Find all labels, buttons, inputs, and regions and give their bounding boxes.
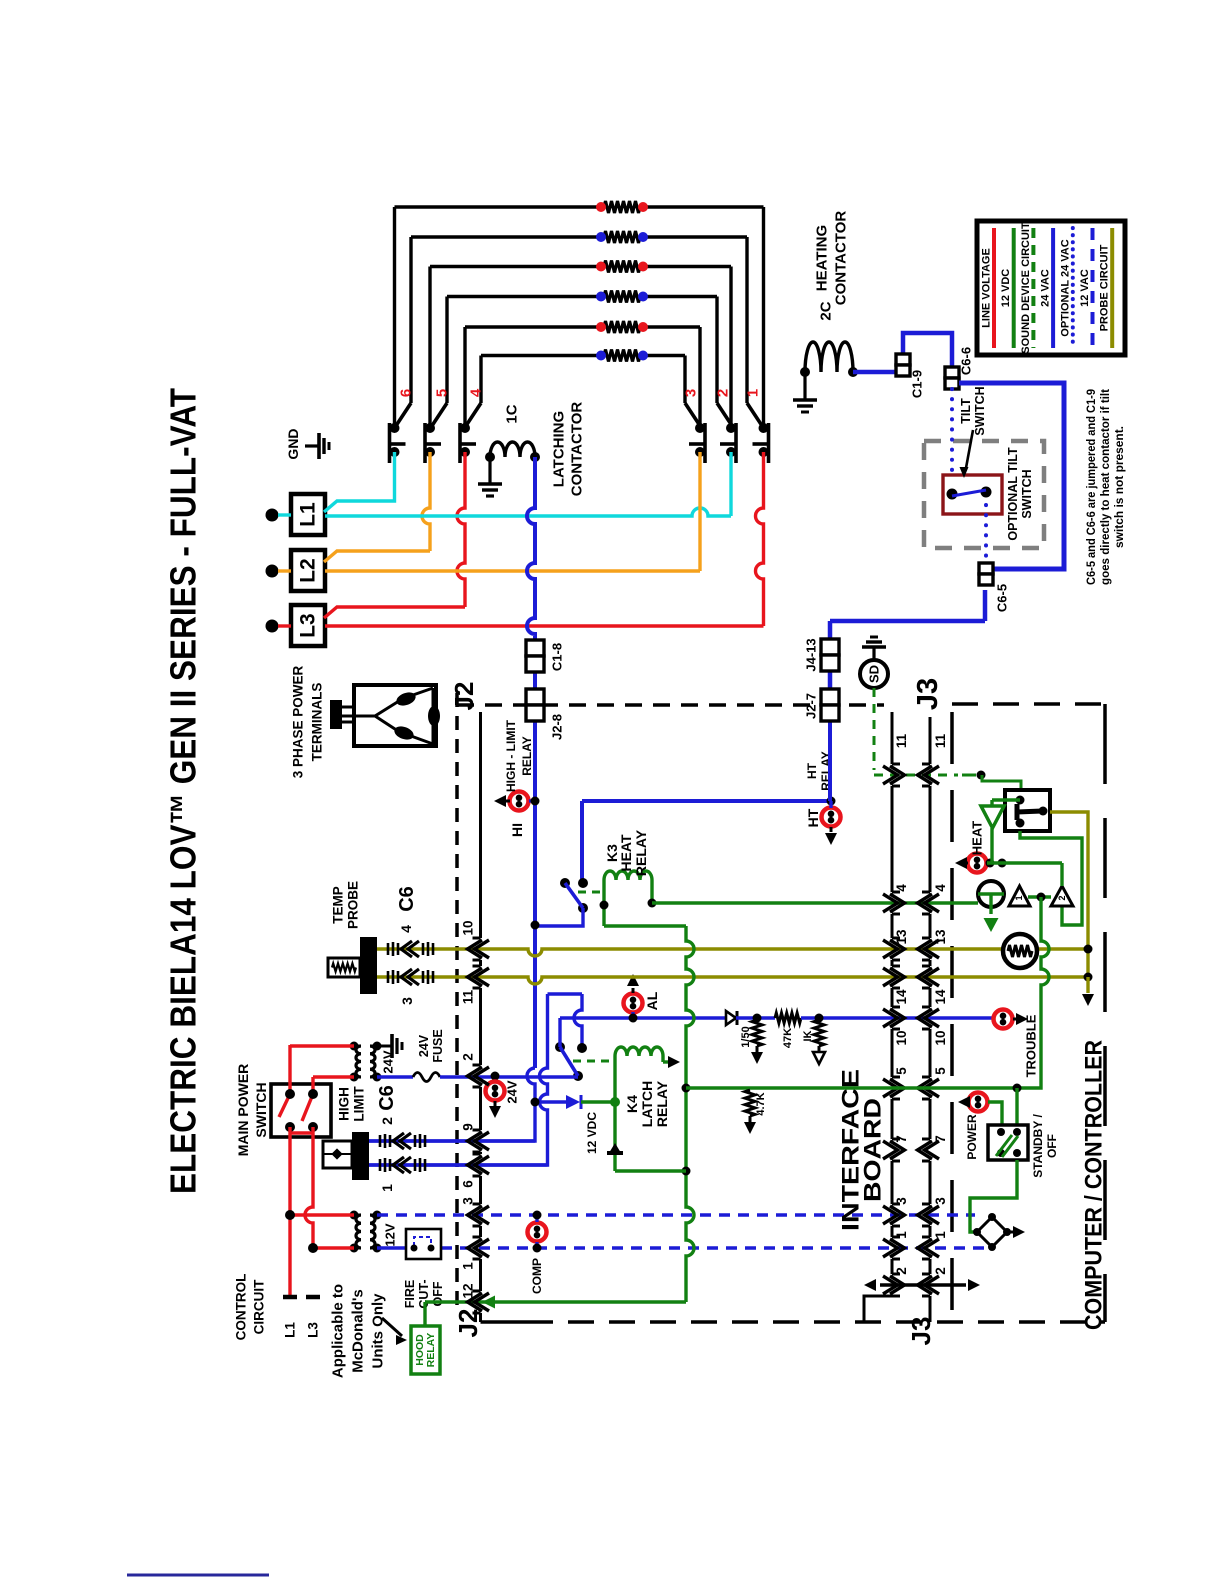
svg-text:OPTIONAL TILT: OPTIONAL TILT bbox=[1006, 447, 1020, 541]
svg-text:9: 9 bbox=[461, 1123, 476, 1131]
svg-text:TEMP: TEMP bbox=[331, 886, 346, 924]
svg-text:L3: L3 bbox=[306, 1322, 321, 1338]
svg-text:HEATING: HEATING bbox=[814, 225, 831, 291]
svg-text:POWER: POWER bbox=[965, 1114, 979, 1160]
svg-text:CONTACTOR: CONTACTOR bbox=[569, 402, 586, 497]
svg-text:J2-7: J2-7 bbox=[804, 693, 819, 719]
svg-text:J3: J3 bbox=[912, 678, 944, 710]
svg-text:McDonald's: McDonald's bbox=[350, 1289, 367, 1373]
svg-text:HT: HT bbox=[805, 808, 821, 827]
svg-text:4: 4 bbox=[398, 925, 414, 933]
svg-text:3 PHASE POWER: 3 PHASE POWER bbox=[291, 665, 306, 778]
svg-text:4: 4 bbox=[933, 884, 948, 892]
svg-text:LATCHING: LATCHING bbox=[551, 411, 568, 487]
svg-text:5: 5 bbox=[933, 1067, 948, 1075]
svg-text:IK: IK bbox=[802, 1030, 814, 1041]
svg-text:J2: J2 bbox=[449, 682, 479, 711]
svg-text:HEAT: HEAT bbox=[618, 834, 634, 872]
svg-text:J2-8: J2-8 bbox=[550, 714, 565, 740]
svg-text:2: 2 bbox=[894, 1267, 909, 1275]
svg-text:SWITCH: SWITCH bbox=[973, 386, 987, 435]
svg-text:6: 6 bbox=[461, 1180, 476, 1188]
svg-text:1: 1 bbox=[461, 1262, 476, 1270]
svg-text:14: 14 bbox=[894, 989, 909, 1005]
svg-text:LINE VOLTAGE: LINE VOLTAGE bbox=[981, 248, 993, 328]
svg-text:CONTROL: CONTROL bbox=[234, 1274, 249, 1341]
svg-text:K4: K4 bbox=[624, 1095, 640, 1113]
svg-text:switch is not present.: switch is not present. bbox=[1112, 426, 1126, 548]
svg-text:11: 11 bbox=[461, 989, 476, 1004]
svg-text:PROBE: PROBE bbox=[346, 881, 361, 929]
svg-text:3: 3 bbox=[399, 997, 415, 1005]
svg-text:24 VAC: 24 VAC bbox=[1040, 269, 1052, 307]
svg-text:C1-8: C1-8 bbox=[550, 643, 565, 671]
svg-text:1: 1 bbox=[894, 1231, 909, 1239]
svg-text:10: 10 bbox=[894, 1030, 909, 1045]
svg-text:CONTACTOR: CONTACTOR bbox=[833, 211, 850, 306]
svg-text:SWITCH: SWITCH bbox=[1020, 469, 1034, 518]
svg-text:RELAY: RELAY bbox=[425, 1333, 437, 1368]
svg-text:L1: L1 bbox=[283, 1322, 298, 1338]
svg-text:47K: 47K bbox=[782, 1028, 794, 1048]
svg-text:TILT: TILT bbox=[959, 398, 973, 424]
svg-text:RELAY: RELAY bbox=[633, 829, 649, 876]
svg-text:12V: 12V bbox=[383, 1223, 398, 1246]
svg-text:24V: 24V bbox=[505, 1080, 520, 1103]
svg-text:3: 3 bbox=[933, 1197, 948, 1205]
svg-text:ELECTRIC BIELA14 LOV™ GEN II S: ELECTRIC BIELA14 LOV™ GEN II SERIES - FU… bbox=[163, 388, 204, 1194]
svg-text:12 VDC: 12 VDC bbox=[585, 1112, 599, 1154]
svg-text:Units Only: Units Only bbox=[370, 1293, 387, 1369]
svg-text:7: 7 bbox=[894, 1135, 909, 1143]
svg-text:24V: 24V bbox=[417, 1034, 431, 1057]
svg-text:L2: L2 bbox=[297, 558, 320, 583]
svg-text:4: 4 bbox=[468, 388, 485, 397]
svg-text:11: 11 bbox=[894, 733, 909, 748]
svg-text:HIGH - LIMIT: HIGH - LIMIT bbox=[504, 719, 518, 792]
svg-text:2C: 2C bbox=[818, 301, 835, 320]
svg-text:10: 10 bbox=[461, 920, 476, 935]
svg-text:HIGH: HIGH bbox=[337, 1087, 352, 1121]
svg-text:2: 2 bbox=[379, 1117, 395, 1125]
svg-text:5: 5 bbox=[894, 1067, 909, 1075]
svg-text:LATCH: LATCH bbox=[639, 1081, 655, 1127]
svg-text:COMPUTER / CONTROLLER: COMPUTER / CONTROLLER bbox=[1081, 1040, 1108, 1330]
svg-text:MAIN POWER: MAIN POWER bbox=[235, 1064, 251, 1157]
svg-text:1: 1 bbox=[1014, 895, 1024, 900]
svg-text:FUSE: FUSE bbox=[431, 1029, 445, 1062]
svg-text:OPTIONAL 24 VAC: OPTIONAL 24 VAC bbox=[1059, 239, 1071, 336]
svg-text:OFF: OFF bbox=[1045, 1134, 1059, 1158]
svg-text:C1-9: C1-9 bbox=[910, 370, 925, 398]
svg-text:GND: GND bbox=[285, 428, 301, 459]
svg-text:6: 6 bbox=[398, 389, 415, 397]
svg-text:1: 1 bbox=[379, 1184, 395, 1192]
svg-text:CIRCUIT: CIRCUIT bbox=[252, 1279, 267, 1334]
svg-text:2: 2 bbox=[1057, 895, 1067, 900]
svg-text:J4-13: J4-13 bbox=[804, 638, 819, 671]
svg-text:4: 4 bbox=[894, 884, 909, 892]
svg-text:1/50: 1/50 bbox=[740, 1026, 752, 1047]
svg-text:C6: C6 bbox=[396, 886, 418, 912]
svg-text:SWITCH: SWITCH bbox=[253, 1082, 269, 1137]
svg-text:1: 1 bbox=[933, 1231, 948, 1239]
svg-text:STANDBY /: STANDBY / bbox=[1031, 1114, 1045, 1178]
svg-text:L1: L1 bbox=[297, 502, 320, 527]
svg-text:3: 3 bbox=[894, 1197, 909, 1205]
svg-text:TROUBLE: TROUBLE bbox=[1024, 1014, 1039, 1077]
svg-text:COMP: COMP bbox=[530, 1258, 544, 1294]
svg-text:13: 13 bbox=[933, 929, 948, 945]
svg-text:24V: 24V bbox=[381, 1050, 396, 1073]
svg-text:HEAT: HEAT bbox=[970, 821, 985, 855]
svg-text:2: 2 bbox=[933, 1267, 948, 1275]
svg-text:LIMIT: LIMIT bbox=[352, 1086, 367, 1122]
svg-text:TERMINALS: TERMINALS bbox=[310, 683, 325, 762]
svg-text:PROBE CIRCUIT: PROBE CIRCUIT bbox=[1099, 244, 1111, 331]
svg-text:HT: HT bbox=[805, 762, 819, 779]
svg-text:BOARD: BOARD bbox=[860, 1098, 887, 1202]
svg-text:12: 12 bbox=[461, 1283, 476, 1298]
svg-text:RELAY: RELAY bbox=[654, 1080, 670, 1127]
svg-text:5: 5 bbox=[434, 389, 451, 397]
svg-text:SD: SD bbox=[867, 665, 882, 683]
svg-text:C6: C6 bbox=[376, 1085, 398, 1111]
svg-text:SOUND DEVICE CIRCUIT: SOUND DEVICE CIRCUIT bbox=[1020, 222, 1032, 354]
svg-text:12 VDC: 12 VDC bbox=[1000, 269, 1012, 308]
svg-text:4.7K: 4.7K bbox=[755, 1092, 767, 1115]
svg-text:HI: HI bbox=[509, 823, 525, 837]
svg-text:2: 2 bbox=[461, 1053, 476, 1061]
svg-text:14: 14 bbox=[933, 989, 948, 1005]
svg-text:2: 2 bbox=[715, 389, 732, 397]
svg-text:C6-5 and C6-6 are jumpered an: C6-5 and C6-6 are jumpered and C1-9 bbox=[1084, 389, 1098, 585]
svg-text:10: 10 bbox=[933, 1030, 948, 1045]
svg-text:11: 11 bbox=[933, 733, 948, 748]
svg-text:3: 3 bbox=[683, 389, 700, 397]
svg-text:goes directly to heat contacto: goes directly to heat contactor if tilt bbox=[1098, 389, 1112, 585]
svg-text:Applicable to: Applicable to bbox=[330, 1284, 347, 1378]
svg-text:L3: L3 bbox=[297, 613, 320, 638]
svg-text:FIRE: FIRE bbox=[403, 1280, 417, 1308]
svg-text:C6-6: C6-6 bbox=[959, 347, 974, 375]
svg-text:12 VAC: 12 VAC bbox=[1079, 269, 1091, 307]
svg-text:RELAY: RELAY bbox=[520, 736, 534, 776]
svg-text:3: 3 bbox=[461, 1197, 476, 1205]
svg-text:AL: AL bbox=[644, 991, 660, 1010]
svg-text:1: 1 bbox=[745, 389, 762, 397]
svg-text:1C: 1C bbox=[504, 404, 521, 423]
svg-text:C6-5: C6-5 bbox=[995, 584, 1010, 612]
svg-text:13: 13 bbox=[894, 929, 909, 945]
svg-text:7: 7 bbox=[933, 1135, 948, 1143]
